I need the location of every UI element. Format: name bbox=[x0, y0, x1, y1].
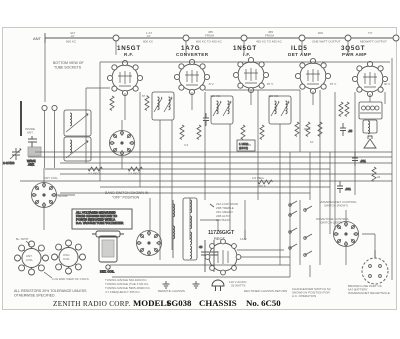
battery plug receptacle bbox=[362, 250, 388, 284]
svg-text:TUBE SOCKETS: TUBE SOCKETS bbox=[54, 66, 82, 70]
svg-text:(MHO): (MHO) bbox=[239, 146, 248, 150]
alignment note 5 bbox=[312, 31, 341, 44]
trimmer circle D bbox=[299, 35, 305, 41]
svg-text:SWITCH (RIGHT): SWITCH (RIGHT) bbox=[324, 204, 348, 208]
socket view OSC coil bbox=[52, 240, 86, 274]
rectifier tube label 117Z6G/GT bbox=[208, 230, 247, 241]
socket view ANT coil bbox=[15, 241, 49, 275]
main wiring grid bbox=[20, 38, 392, 280]
connector circle b bbox=[52, 105, 57, 168]
svg-text:10: 10 bbox=[310, 140, 314, 144]
svg-text:3.3: 3.3 bbox=[184, 143, 189, 147]
svg-text:COIL: COIL bbox=[63, 257, 70, 261]
svg-text:455 KC TO 455 KC: 455 KC TO 455 KC bbox=[256, 40, 283, 44]
bottom view note bbox=[53, 61, 84, 70]
oscillator coil form drawing bbox=[92, 231, 124, 274]
svg-text:117V: 117V bbox=[240, 237, 247, 241]
tone switch list bbox=[210, 202, 239, 222]
svg-text:3Q5GT: 3Q5GT bbox=[341, 45, 365, 52]
wavemagnet control switch label bbox=[320, 200, 357, 208]
svg-text:B+ SPOT: B+ SPOT bbox=[16, 237, 29, 241]
tube V2 label 1A7G CONVERTER bbox=[176, 45, 209, 57]
coupling cap C mid right bbox=[340, 123, 353, 136]
output transformer T4 bbox=[359, 102, 382, 119]
volume pot box 1 MEG bbox=[237, 140, 255, 151]
svg-text:GD-MF: GD-MF bbox=[58, 194, 68, 198]
grid resistor cluster under V4 bbox=[306, 122, 322, 144]
changeover switch note bbox=[292, 287, 331, 298]
speaker cone bbox=[364, 136, 376, 148]
switch contacts cluster bbox=[289, 201, 312, 256]
svg-text:BOTTOM VIEW OF: BOTTOM VIEW OF bbox=[53, 61, 84, 65]
svg-text:470 K: 470 K bbox=[258, 184, 266, 188]
trimmer circle F bbox=[393, 35, 399, 41]
svg-text:CHASSIS: CHASSIS bbox=[199, 298, 237, 308]
svg-text:DET AMP: DET AMP bbox=[288, 52, 311, 57]
alignment note 4 bbox=[256, 30, 283, 44]
svg-text:1N5GT: 1N5GT bbox=[233, 45, 257, 52]
wave tone control switch label bbox=[316, 217, 349, 225]
B+ spot note bbox=[16, 237, 30, 245]
resistor 24 vertical right bbox=[372, 167, 381, 181]
svg-text:D.C. VACUUM TUBE VOLTMETER: D.C. VACUUM TUBE VOLTMETER bbox=[76, 221, 124, 225]
remote chassis ground 2 bbox=[193, 281, 200, 288]
tone switch rotary S5 bbox=[32, 183, 68, 208]
svg-text:600 KC: 600 KC bbox=[143, 40, 154, 44]
loop antenna coil box 2 bbox=[64, 137, 91, 161]
connector circle a bbox=[42, 105, 47, 168]
band switch rotary S1 bbox=[110, 131, 135, 156]
svg-text:90 V.: 90 V. bbox=[384, 82, 391, 86]
voltage note box bbox=[72, 209, 132, 229]
svg-text:OTHERWISE SPECIFIED.: OTHERWISE SPECIFIED. bbox=[14, 294, 56, 298]
grid resistor cluster under V3 bbox=[241, 125, 264, 147]
resistor 4.7 MEG horizontal bbox=[88, 167, 102, 176]
rectifier tube V6 bbox=[205, 239, 241, 275]
tube V1 label 1N5GT R.F. bbox=[117, 45, 141, 57]
svg-text:2.2 MEG.: 2.2 MEG. bbox=[128, 172, 141, 176]
bottom view of tube sockets note bbox=[62, 124, 64, 128]
rectifier chassis return label bbox=[244, 289, 287, 293]
svg-text:.05: .05 bbox=[348, 129, 353, 133]
trimmer circle C bbox=[241, 35, 247, 41]
svg-text:4.7 FREQUENCY 455 KC.: 4.7 FREQUENCY 455 KC. bbox=[105, 290, 141, 294]
svg-text:ONE WATT OUTPUT: ONE WATT OUTPUT bbox=[312, 40, 341, 44]
tube V3 label 1N5GT I.F. bbox=[233, 45, 257, 57]
speaker voice coil box bbox=[363, 120, 377, 134]
AC plug symbol bbox=[212, 280, 224, 291]
svg-text:ILD5: ILD5 bbox=[291, 45, 308, 52]
loop antenna coil box 1 bbox=[64, 110, 91, 136]
resistor tolerance note bbox=[14, 289, 87, 298]
trimmer circle E bbox=[345, 35, 351, 41]
svg-text:ANT: ANT bbox=[33, 36, 42, 41]
svg-text:1N5GT: 1N5GT bbox=[117, 45, 141, 52]
remote chassis ground 1 bbox=[158, 281, 185, 293]
electrolytic cap C40 bbox=[199, 240, 209, 272]
volume control rotary S2 bbox=[137, 231, 162, 256]
INSIDE ANT label bbox=[25, 127, 35, 135]
electrolytic cap C30 bbox=[210, 240, 218, 272]
svg-text:455 KC.: 455 KC. bbox=[210, 94, 221, 98]
resistor R vertical near V4 bbox=[295, 122, 311, 136]
svg-text:.A7: .A7 bbox=[146, 34, 151, 38]
B plus labels bbox=[142, 82, 391, 98]
padder stack bbox=[173, 200, 175, 258]
svg-text:455 KC.: 455 KC. bbox=[268, 94, 279, 98]
resistor R vertical near V5 bbox=[339, 102, 343, 116]
svg-text:"OFF" POSITION: "OFF" POSITION bbox=[112, 196, 140, 200]
cathode resistor under V1 bbox=[110, 96, 149, 110]
svg-text:2-GANG: 2-GANG bbox=[3, 161, 15, 165]
svg-text:24: 24 bbox=[377, 175, 381, 179]
alignment note 2 bbox=[143, 31, 154, 44]
svg-text:.001: .001 bbox=[345, 187, 351, 191]
svg-text:23D BASS: 23D BASS bbox=[216, 218, 230, 222]
svg-text:No. 6C50: No. 6C50 bbox=[246, 298, 281, 308]
wavemagnet ant block bbox=[27, 147, 41, 167]
svg-text:.A7: .A7 bbox=[70, 34, 75, 38]
ANT COIL label left bbox=[44, 176, 58, 180]
alignment note 3 bbox=[196, 30, 223, 44]
band switch note bbox=[105, 191, 149, 200]
svg-text:ANT.: ANT. bbox=[28, 163, 35, 167]
svg-text:PWR AMP: PWR AMP bbox=[342, 52, 367, 57]
svg-text:ANT COIL: ANT COIL bbox=[44, 176, 58, 180]
svg-text:40: 40 bbox=[199, 245, 203, 249]
svg-text:LUG END VIEW OF COILS: LUG END VIEW OF COILS bbox=[52, 277, 89, 281]
svg-text:4.7 MEG.: 4.7 MEG. bbox=[88, 172, 101, 176]
resistor 470K horizontal bbox=[252, 176, 272, 188]
line voltage label bbox=[229, 280, 247, 288]
ant coupling cap bbox=[28, 136, 37, 147]
lug end view note bbox=[44, 272, 89, 281]
svg-text:REMOTE CHASSIS: REMOTE CHASSIS bbox=[158, 289, 185, 293]
tube V3 1N5GT IF bbox=[233, 57, 268, 92]
trimmer circle A bbox=[113, 35, 119, 41]
svg-text:1A7G: 1A7G bbox=[181, 45, 200, 52]
svg-text:ANT.: ANT. bbox=[27, 131, 34, 135]
tube V4 label 1LD5 DET AMP bbox=[288, 45, 311, 57]
svg-text:A.C. OPERATION: A.C. OPERATION bbox=[292, 294, 316, 298]
wavemagnet switch rotary S3 bbox=[334, 222, 359, 247]
svg-text:WAVEMAGNET RECEPTACLE: WAVEMAGNET RECEPTACLE bbox=[348, 291, 390, 295]
tube V1 1N5GT RF bbox=[107, 60, 142, 95]
svg-text:25 WATTS: 25 WATTS bbox=[231, 284, 245, 288]
inside antenna thick lead bbox=[20, 101, 22, 136]
IF transformer T3 (455KC) bbox=[269, 96, 291, 124]
tube V5 3Q5GT pwr amp bbox=[352, 61, 387, 96]
svg-text:600: 600 bbox=[318, 31, 323, 35]
svg-text:87 V.: 87 V. bbox=[142, 94, 149, 98]
coupling cap C under V2 bbox=[203, 113, 209, 126]
svg-text:600 KC TO 455 KC: 600 KC TO 455 KC bbox=[196, 40, 223, 44]
cap .001 bottom right bbox=[337, 181, 351, 193]
svg-text:COIL: COIL bbox=[26, 258, 33, 262]
svg-text:6G038: 6G038 bbox=[167, 298, 192, 308]
svg-text:600 KC: 600 KC bbox=[66, 40, 77, 44]
svg-text:FROM: FROM bbox=[205, 34, 214, 38]
svg-text:1/2 MEG.: 1/2 MEG. bbox=[252, 176, 265, 180]
svg-text:T.P: T.P bbox=[368, 31, 372, 35]
tuning range note bbox=[105, 278, 151, 294]
svg-text:FROM: FROM bbox=[265, 34, 274, 38]
svg-text:MIDWATT OUTPUT: MIDWATT OUTPUT bbox=[360, 40, 387, 44]
battery plug note bbox=[348, 284, 390, 295]
svg-text:DET. COIL: DET. COIL bbox=[100, 270, 115, 274]
IF transformer T1 bbox=[152, 92, 174, 120]
svg-text:RECTIFIER CHASSIS RETURN: RECTIFIER CHASSIS RETURN bbox=[244, 289, 287, 293]
svg-text:87 V.: 87 V. bbox=[267, 82, 274, 86]
cap .001 right bbox=[352, 152, 366, 166]
resistor 2.2 MEG horizontal bbox=[128, 167, 142, 176]
svg-text:-8 V.: -8 V. bbox=[208, 82, 214, 86]
trimmer circle B bbox=[183, 35, 189, 41]
svg-text:87 V.: 87 V. bbox=[330, 82, 337, 86]
IF transformer T2 (455KC) bbox=[211, 96, 233, 124]
osc coil stack bbox=[183, 198, 197, 260]
antenna feed line bbox=[45, 33, 396, 43]
svg-text:CONVERTER: CONVERTER bbox=[176, 52, 209, 57]
svg-text:BAND SWITCH SHOWN IN: BAND SWITCH SHOWN IN bbox=[105, 191, 149, 195]
grid resistor cluster under V2 bbox=[180, 125, 201, 147]
alignment note 1 bbox=[66, 31, 77, 44]
alignment note 6 bbox=[360, 31, 387, 44]
resistor R vertical near V5 b bbox=[345, 102, 349, 116]
2-gang tuning cap bbox=[3, 148, 21, 165]
tube V2 1A7G converter bbox=[174, 59, 209, 94]
svg-text:.001: .001 bbox=[360, 159, 366, 163]
svg-text:R.F.: R.F. bbox=[124, 52, 134, 57]
svg-text:ALL RESISTORS 20% TOLERANCE UN: ALL RESISTORS 20% TOLERANCE UNLESS bbox=[14, 289, 87, 293]
tube V4 1LD5 det amp bbox=[295, 58, 330, 93]
tube V5 label 3Q5GT PWR AMP bbox=[341, 45, 367, 57]
svg-text:ZENITH RADIO CORP.: ZENITH RADIO CORP. bbox=[53, 300, 130, 308]
svg-text:MODELS: MODELS bbox=[133, 298, 171, 308]
